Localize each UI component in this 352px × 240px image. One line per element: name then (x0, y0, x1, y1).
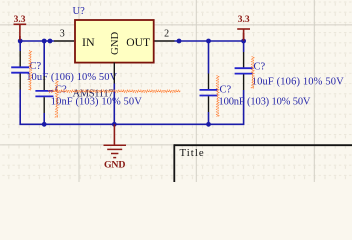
svg-text:GND: GND (104, 160, 126, 171)
junction node C2 top (42, 39, 47, 44)
svg-text:C?: C? (220, 85, 232, 96)
svg-text:GND: GND (110, 31, 121, 54)
wire red stem overlay right power (243, 33, 245, 41)
wire cap C2 upper lead (43, 41, 45, 76)
junction node right power (241, 39, 246, 44)
svg-text:OUT: OUT (126, 36, 150, 49)
svg-text:C?: C? (254, 62, 266, 73)
junction node pin3 wire end (48, 39, 53, 44)
wire 3.3 net top-right (175, 40, 244, 42)
wire regulator GND pin to bottom net (113, 84, 115, 125)
wire cap C2 lower lead (43, 113, 45, 124)
error marker squiggle S1 (C1 text overlap) (29, 51, 31, 91)
power port 3.3 (right) (237, 15, 250, 41)
junction node C2 bottom (42, 122, 47, 127)
junction node C4 bottom (206, 122, 211, 127)
wire cap C3 upper lead (243, 41, 245, 52)
error marker squiggle S3 (C4 text overlap) (217, 76, 219, 117)
regulator U? AMS1117 body (75, 20, 154, 63)
pin 2 (OUT) (155, 40, 175, 42)
junction node left power (18, 39, 23, 44)
error marker squiggle S4 (C3 text overlap) (252, 57, 254, 89)
svg-text:100nF (103) 10% 50V: 100nF (103) 10% 50V (219, 97, 311, 108)
capacitor C1 10uF (top-left) (11, 51, 29, 90)
junction node C4 top (206, 39, 211, 44)
svg-text:Title: Title (180, 147, 204, 159)
ground GND power port (104, 124, 127, 170)
wire red stem overlay left power (19, 36, 21, 40)
junction node pin2 wire (177, 39, 182, 44)
svg-text:10uF (106) 10% 50V: 10uF (106) 10% 50V (252, 77, 344, 88)
wire GND net bottom (20, 90, 243, 125)
svg-text:IN: IN (82, 35, 95, 49)
error marker squiggle S5 (AMS1117 overlap, horizontal) (49, 90, 181, 92)
wire cap C1 upper lead (19, 41, 21, 51)
svg-text:3.3: 3.3 (14, 15, 26, 25)
capacitor C2 10nF (bottom-left) (35, 76, 53, 113)
sheet title block (174, 144, 352, 182)
svg-text:3: 3 (60, 28, 65, 39)
svg-text:10uF (106) 10% 50V: 10uF (106) 10% 50V (26, 72, 117, 83)
capacitor C3 10uF (top-right) (235, 52, 253, 90)
wire cap C4 upper lead (208, 41, 210, 74)
power port 3.3 (left) (14, 15, 27, 41)
pin 3 (IN) (54, 40, 74, 42)
capacitor C4 100nF (bottom-right) (200, 74, 218, 113)
svg-text:3.3: 3.3 (238, 15, 250, 25)
junction node GND stem (112, 122, 117, 127)
svg-text:U?: U? (73, 6, 86, 17)
wire 3.3 net top-left (20, 40, 54, 42)
svg-text:2: 2 (164, 28, 169, 39)
error marker squiggle S2 (C2 text overlap) (56, 81, 58, 118)
wire cap C4 lower lead (208, 112, 210, 124)
pin 1 (GND) (113, 63, 115, 84)
